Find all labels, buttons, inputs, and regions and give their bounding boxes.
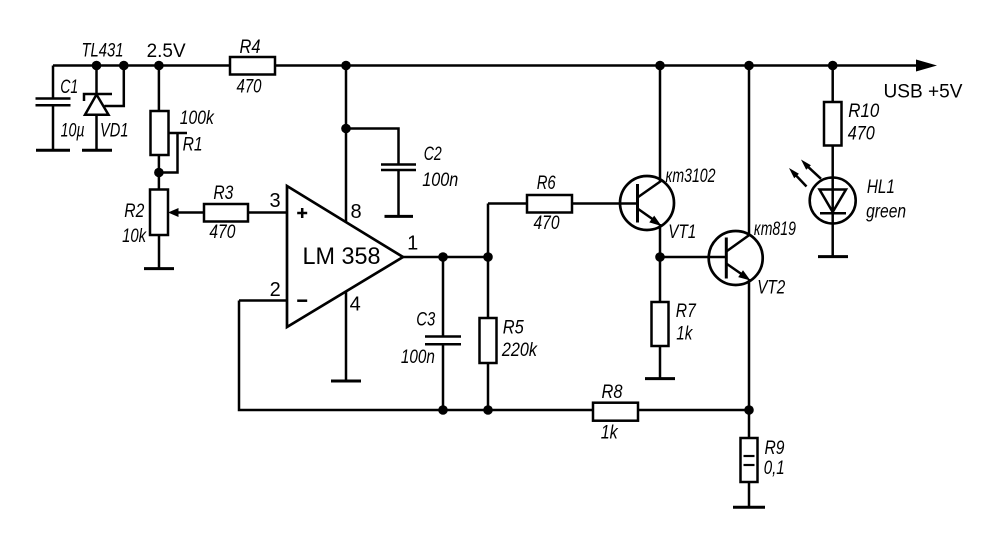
wire C2 branch bbox=[346, 129, 399, 165]
svg-text:470: 470 bbox=[237, 77, 262, 98]
wire R7 to ground bbox=[659, 346, 662, 379]
wire R5/R6 branch bbox=[487, 204, 490, 319]
wire R5 bottom bbox=[487, 363, 490, 410]
op-amp minus sign bbox=[297, 299, 307, 302]
svg-text:кт819: кт819 bbox=[754, 219, 796, 240]
ground VD1 bbox=[82, 149, 112, 152]
transistor VT2 emitter bbox=[726, 264, 745, 277]
ground C2 bbox=[385, 215, 414, 218]
junction dot R8/R9/VT2 emitter bbox=[744, 405, 754, 415]
power arrow head USB +5V bbox=[916, 60, 937, 72]
resistor R9 bbox=[741, 438, 758, 482]
capacitor C2 bbox=[381, 163, 416, 166]
wire R2 wiper arrow bbox=[177, 211, 204, 214]
svg-text:100n: 100n bbox=[422, 170, 458, 191]
wire pin 4 to ground bbox=[345, 292, 348, 382]
svg-text:C3: C3 bbox=[416, 310, 435, 331]
ground R9 bbox=[733, 506, 765, 509]
junction dot C3/feedback bbox=[438, 405, 448, 415]
svg-text:220k: 220k bbox=[501, 340, 538, 361]
VT2 emitter arrowhead bbox=[738, 270, 750, 280]
wire pin 2 stub bbox=[239, 299, 287, 302]
svg-text:R1: R1 bbox=[183, 135, 203, 156]
ground R2 bbox=[144, 267, 174, 270]
wire VT1 emitter to VT2 base bbox=[660, 256, 726, 259]
wire R9 to ground bbox=[748, 482, 751, 507]
wire R10 drop bbox=[831, 66, 834, 103]
svg-text:VD1: VD1 bbox=[100, 121, 129, 142]
capacitor C1 bbox=[36, 97, 71, 100]
wire output pin 1 bbox=[403, 256, 488, 259]
junction dot 2.5V bbox=[154, 61, 164, 71]
svg-text:0,1: 0,1 bbox=[764, 458, 785, 479]
LED arrow 2 head bbox=[801, 160, 811, 170]
junction dot ref/rail bbox=[119, 61, 129, 71]
LED HL1 cathode bar bbox=[820, 212, 846, 215]
svg-text:470: 470 bbox=[534, 213, 560, 234]
svg-text:470: 470 bbox=[848, 124, 875, 145]
transistor VT1 circle bbox=[620, 176, 674, 230]
VT1 emitter arrowhead bbox=[649, 216, 661, 226]
resistor R10 bbox=[824, 102, 842, 146]
junction dot R10/rail bbox=[828, 61, 838, 71]
wire R1 rheostat tap bbox=[169, 132, 188, 135]
junction dot C2 branch bbox=[341, 124, 351, 134]
svg-text:R6: R6 bbox=[537, 173, 556, 194]
LED HL1 anode/cathode wire bbox=[831, 178, 834, 257]
transistor VT1 base bar bbox=[636, 184, 639, 223]
resistor R8 bbox=[593, 403, 638, 421]
svg-text:LM 358: LM 358 bbox=[303, 243, 381, 270]
svg-text:кт3102: кт3102 bbox=[666, 166, 716, 187]
LED arrow 2 bbox=[806, 165, 821, 179]
svg-text:R3: R3 bbox=[213, 183, 233, 204]
junction dot VT1 emitter node bbox=[655, 252, 665, 262]
LED HL1 triangle bbox=[820, 190, 847, 213]
resistor R9 inner bars bbox=[744, 455, 755, 457]
R2 wiper arrowhead bbox=[168, 208, 179, 217]
svg-text:R9: R9 bbox=[765, 438, 785, 459]
wire to R6 bbox=[488, 202, 527, 205]
capacitor C3 bbox=[442, 257, 445, 336]
junction dot VD1/rail bbox=[92, 61, 102, 71]
svg-text:1k: 1k bbox=[676, 324, 693, 345]
resistor R6 bbox=[527, 195, 572, 213]
svg-text:VT1: VT1 bbox=[668, 222, 696, 243]
wire R3 to pin 3 bbox=[248, 211, 287, 214]
svg-text:2: 2 bbox=[270, 279, 281, 301]
svg-text:R7: R7 bbox=[676, 301, 697, 322]
transistor VT2 circle bbox=[709, 231, 763, 285]
ground C1 bbox=[36, 149, 70, 152]
svg-text:1k: 1k bbox=[601, 423, 619, 444]
resistor R4 bbox=[230, 57, 275, 75]
LED HL1 circle bbox=[810, 178, 856, 224]
svg-text:1: 1 bbox=[407, 233, 418, 255]
transistor VT1 collector bbox=[638, 181, 662, 198]
wire top rail +5V bbox=[53, 64, 922, 67]
wire R2 to ground bbox=[158, 235, 161, 269]
potentiometer R1 bbox=[151, 111, 169, 155]
wire TL431 reference pin bbox=[105, 66, 124, 107]
svg-text:470: 470 bbox=[209, 222, 235, 243]
wire pin 8 to rail bbox=[345, 66, 348, 223]
op-amp U1 LM358 triangle bbox=[287, 186, 403, 327]
junction dot VT2 collector/rail bbox=[744, 61, 754, 71]
svg-text:10µ: 10µ bbox=[61, 121, 85, 142]
LED arrow 1 bbox=[794, 173, 807, 186]
svg-text:C2: C2 bbox=[424, 144, 442, 165]
transistor VT2 base bar bbox=[725, 238, 728, 279]
svg-text:green: green bbox=[866, 202, 906, 223]
junction dot R5 branch/output bbox=[483, 252, 493, 262]
junction dot R5/feedback bbox=[483, 405, 493, 415]
svg-text:8: 8 bbox=[350, 201, 361, 223]
resistor R7 bbox=[652, 302, 669, 346]
junction dot R1/R2 node bbox=[154, 168, 164, 178]
svg-text:TL431: TL431 bbox=[82, 41, 124, 62]
ground R7 bbox=[645, 377, 675, 380]
transistor VT2 collector bbox=[726, 235, 750, 252]
svg-text:2.5V: 2.5V bbox=[147, 41, 186, 62]
svg-text:R4: R4 bbox=[240, 37, 261, 58]
svg-text:VT2: VT2 bbox=[757, 278, 785, 299]
svg-text:R8: R8 bbox=[602, 382, 623, 403]
wire 2.5V node to R1 bbox=[158, 66, 161, 112]
wire C1 leads bbox=[52, 66, 55, 99]
LED arrow 1 head bbox=[789, 168, 799, 178]
svg-text:HL1: HL1 bbox=[867, 177, 895, 198]
wire R10 to LED bbox=[831, 146, 834, 178]
wire R6 to VT1 base bbox=[572, 202, 638, 205]
resistor R3 bbox=[204, 204, 248, 222]
ground pin 4 bbox=[331, 380, 361, 383]
svg-text:100k: 100k bbox=[180, 108, 215, 129]
svg-text:10k: 10k bbox=[122, 226, 147, 247]
svg-text:C1: C1 bbox=[60, 77, 78, 98]
junction dot pin8/rail bbox=[341, 61, 351, 71]
ground HL1 bbox=[818, 255, 848, 258]
svg-text:R10: R10 bbox=[848, 101, 879, 122]
svg-text:3: 3 bbox=[269, 190, 280, 212]
svg-text:R2: R2 bbox=[124, 201, 144, 222]
junction dot VT1 collector/rail bbox=[655, 61, 665, 71]
svg-text:USB +5V: USB +5V bbox=[884, 82, 963, 103]
junction dot C3/output bbox=[438, 252, 448, 262]
svg-text:R5: R5 bbox=[503, 318, 524, 339]
svg-text:100n: 100n bbox=[401, 347, 435, 368]
transistor VT1 emitter bbox=[638, 209, 657, 222]
svg-text:4: 4 bbox=[350, 294, 361, 316]
shunt regulator VD1 TL431 bbox=[95, 66, 98, 95]
potentiometer R2 bbox=[150, 190, 168, 236]
op-amp plus sign bbox=[297, 212, 307, 215]
wire feedback bottom net bbox=[239, 301, 749, 411]
wire R1 bottom lead bbox=[158, 155, 161, 190]
resistor R5 bbox=[480, 318, 497, 363]
